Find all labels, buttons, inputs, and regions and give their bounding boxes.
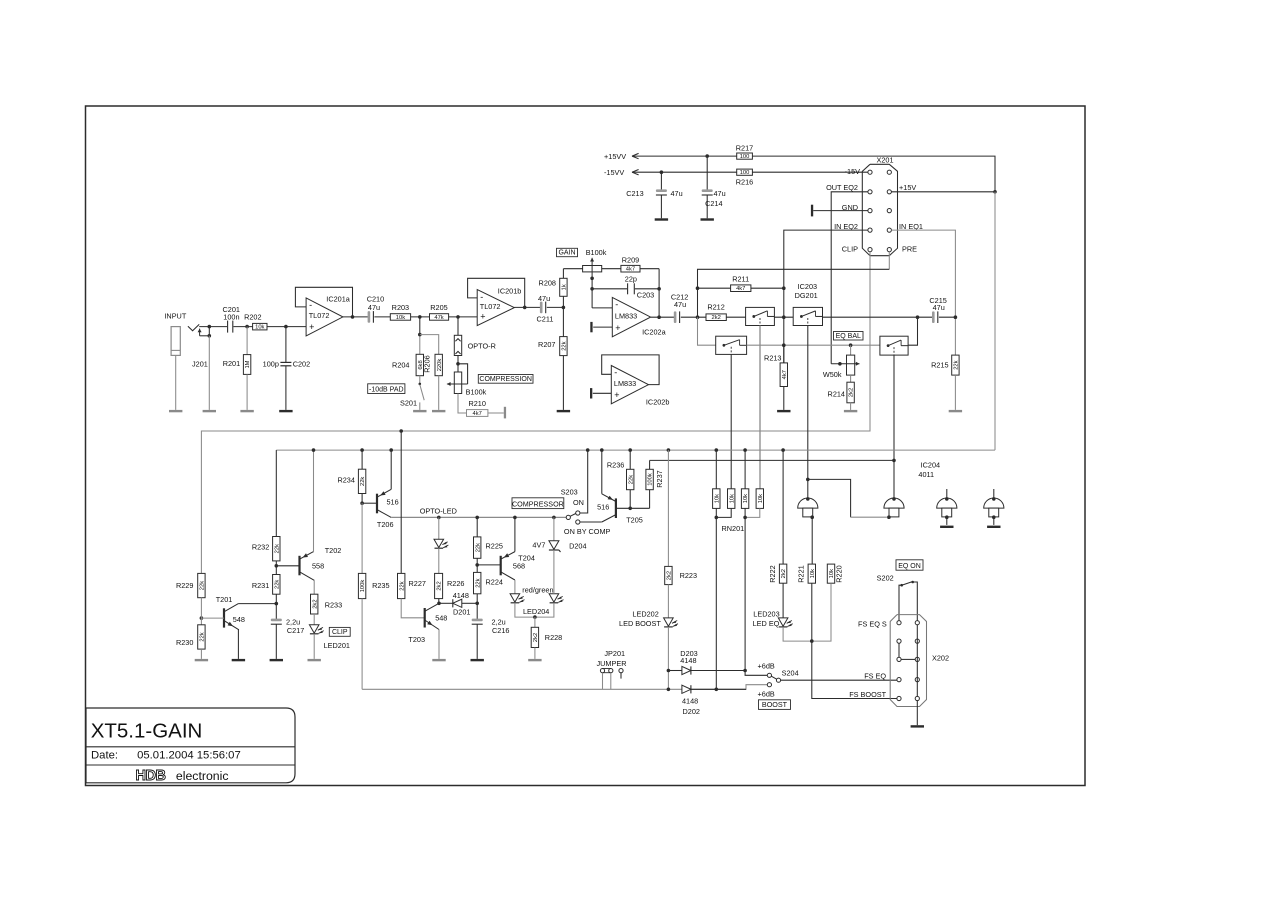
wire R202-opamp: [267, 326, 306, 328]
node R221 bottom j: [810, 639, 814, 643]
label red/green: [522, 586, 553, 595]
node IC202a out: [657, 315, 661, 319]
ground gate C: [940, 526, 953, 528]
ground C216: [471, 659, 484, 661]
pin X201 right row3: [887, 209, 891, 213]
svg-text:10k: 10k: [396, 315, 405, 321]
node T204 base j: [475, 563, 479, 567]
svg-text:R211: R211: [732, 275, 749, 284]
wire wiper loop: [458, 364, 468, 384]
resistor R220: [827, 564, 835, 583]
label C214 value: [714, 189, 726, 198]
svg-text:C202: C202: [293, 360, 310, 369]
pot gain wiper arrow: [590, 258, 594, 279]
resistor R208: [560, 278, 568, 296]
transistor T204: [477, 552, 515, 580]
ground R201: [240, 410, 253, 412]
resistor R226: [435, 573, 443, 598]
node R224 bottom: [475, 602, 479, 606]
logo HDB: [136, 768, 166, 784]
switch S202: [900, 581, 914, 587]
svg-text:4148: 4148: [453, 591, 469, 600]
led LED202: [664, 618, 678, 627]
wire R222-LED203: [782, 583, 784, 618]
wire SW3 control: [893, 355, 895, 499]
resistor R214: [847, 382, 855, 403]
node C203 right: [657, 287, 661, 291]
svg-text:516: 516: [597, 503, 609, 512]
svg-text:22k: 22k: [274, 544, 280, 553]
resistor R237: [646, 460, 654, 508]
wire R204-S201: [419, 376, 421, 384]
switch S204 lever: [771, 676, 777, 679]
wire R233-LED201: [313, 614, 315, 625]
label INPUT: [164, 311, 186, 320]
svg-text:LED EQ: LED EQ: [753, 619, 780, 628]
label T201 value: [233, 615, 245, 624]
svg-text:COMPRESSION: COMPRESSION: [479, 376, 532, 383]
label T203 value: [435, 614, 447, 623]
led LED201: [309, 625, 323, 634]
wire R226-T203: [438, 599, 440, 604]
label X202: [932, 654, 949, 663]
wire eqbal right: [908, 317, 917, 345]
svg-text:22k: 22k: [954, 360, 960, 369]
pin X202 right row4: [915, 678, 919, 682]
wire IC202b feedback: [602, 355, 659, 385]
connector X202 outline: [890, 615, 926, 707]
label T206 value: [387, 498, 399, 507]
svg-text:R229: R229: [176, 581, 193, 590]
svg-text:red/green: red/green: [522, 586, 553, 595]
transistor T202: [276, 552, 314, 581]
terminal R210 bar: [504, 407, 506, 419]
wire T204 emitter: [514, 580, 516, 594]
capacitor C212: [674, 311, 680, 323]
wire bottom rail: [362, 685, 767, 690]
label OPTO-LED: [420, 507, 457, 516]
label S202: [877, 573, 894, 582]
pin X201 right row5: [887, 248, 891, 252]
svg-text:2k2: 2k2: [533, 633, 539, 642]
transistor T203: [425, 603, 439, 629]
resistor R202: [253, 323, 267, 330]
label R236: [607, 460, 624, 469]
pin X201 left row3: [868, 209, 872, 213]
svg-text:516: 516: [387, 498, 399, 507]
label D201 value: [453, 591, 469, 600]
label R211: [732, 275, 749, 284]
node IN EQ2 main: [782, 315, 786, 319]
wire RN34 join: [745, 508, 760, 517]
svg-text:R213: R213: [764, 353, 781, 362]
svg-text:R232: R232: [252, 542, 269, 551]
wire R228 ground: [534, 648, 536, 659]
svg-text:EQ BAL: EQ BAL: [836, 333, 861, 340]
label J201: [192, 359, 208, 368]
switch S204 common: [776, 678, 780, 682]
svg-text:4011: 4011: [918, 470, 934, 479]
wire GND pin: [813, 210, 868, 212]
ground T203: [432, 659, 445, 661]
jack J201 body: [171, 327, 180, 356]
label D201: [453, 608, 470, 617]
node R236 rail: [628, 448, 632, 452]
capacitor C203: [628, 283, 635, 294]
boxed label COMPRESSOR: [512, 498, 564, 509]
node T204 coll rail: [513, 516, 517, 520]
label C217: [287, 626, 304, 635]
node S203 rail: [586, 448, 590, 452]
svg-text:X202: X202: [932, 654, 949, 663]
label C203 value: [625, 275, 637, 284]
node R231-C217: [275, 602, 279, 606]
ground gate D: [987, 526, 1000, 528]
ground R215: [949, 410, 962, 412]
label CLIP: [842, 245, 858, 254]
svg-text:XT5.1-GAIN: XT5.1-GAIN: [91, 719, 203, 742]
node eqbal IN EQ2: [782, 343, 786, 347]
capacitor C214: [702, 156, 713, 218]
resistor R230: [198, 625, 206, 649]
ground R206: [432, 410, 445, 412]
label electronic: [176, 769, 229, 783]
title block box: [86, 708, 295, 783]
node eqbal pot: [849, 343, 853, 347]
nand gate D: [984, 489, 1004, 525]
node gateB out: [892, 497, 896, 501]
svg-text:47u: 47u: [714, 189, 726, 198]
boxed label EQ BAL: [834, 332, 864, 341]
svg-text:Date:: Date:: [91, 749, 118, 761]
svg-text:100k: 100k: [648, 473, 654, 486]
pin X202 left row1: [897, 621, 901, 625]
wire -15VV rail: [632, 171, 868, 173]
capacitor C215: [932, 311, 938, 323]
svg-text:TL072: TL072: [309, 311, 330, 320]
capacitor C216: [472, 603, 483, 659]
label T204: [518, 554, 535, 563]
label IC202a: [642, 328, 666, 337]
node R223 rail: [667, 448, 671, 452]
wire C211-R208: [547, 306, 564, 308]
node SW2-gateA j: [806, 478, 810, 482]
node C203 left: [590, 287, 594, 291]
label IN EQ2: [834, 222, 858, 231]
svg-text:47u: 47u: [674, 300, 686, 309]
wire R207 ground: [562, 356, 564, 410]
label C203: [637, 291, 654, 300]
resistor R221: [808, 564, 816, 583]
resistor R205: [430, 314, 449, 321]
pin X202 left row2: [897, 639, 901, 643]
ground R230: [195, 659, 208, 661]
label PRE: [902, 245, 917, 254]
nand gate A: [798, 498, 818, 517]
wire X202 strap right: [916, 625, 918, 697]
pin X201 left row1: [868, 170, 872, 174]
svg-text:IC202a: IC202a: [642, 328, 666, 337]
switch S203 comp contact: [576, 520, 580, 524]
led LED204 right: [549, 594, 563, 603]
svg-text:4V7: 4V7: [532, 541, 545, 550]
label C216: [492, 626, 509, 635]
resistor R224: [474, 572, 482, 593]
ground R207: [557, 410, 570, 412]
wire C201-R202: [233, 326, 252, 328]
svg-text:R223: R223: [680, 571, 697, 580]
wire IC201a feedback: [295, 287, 352, 317]
svg-text:1k: 1k: [562, 284, 568, 290]
svg-text:548: 548: [435, 614, 447, 623]
pin X202 left row3: [897, 657, 901, 661]
date value: [137, 749, 241, 761]
capacitor C217: [271, 619, 282, 659]
svg-text:D202: D202: [683, 707, 700, 716]
label +15V: [899, 183, 916, 192]
wire gateA in drop: [811, 517, 813, 564]
label R208: [539, 278, 556, 287]
svg-text:R222: R222: [768, 565, 777, 582]
ground LED201: [308, 659, 321, 661]
svg-text:S204: S204: [782, 668, 799, 677]
resistor R231: [273, 575, 281, 595]
resistor R236: [627, 450, 635, 508]
svg-text:R230: R230: [176, 638, 193, 647]
svg-text:10k: 10k: [729, 494, 735, 503]
label R223: [680, 571, 697, 580]
label +15VV: [604, 152, 626, 161]
terminal IC202a plus: [590, 322, 612, 332]
svg-text:558: 558: [312, 562, 324, 571]
svg-text:22k: 22k: [274, 580, 280, 589]
label R210: [468, 399, 485, 408]
op-amp IC202a: [612, 297, 650, 336]
wire gain wiper down: [591, 278, 593, 289]
svg-text:LED201: LED201: [324, 641, 350, 650]
led LED203: [778, 618, 792, 627]
svg-text:LED203: LED203: [753, 609, 779, 618]
wire R237 rail: [650, 459, 894, 461]
wire R222 top: [782, 450, 784, 564]
node pot wiper j: [456, 362, 460, 366]
wire R227-T203base: [401, 599, 425, 618]
svg-text:R233: R233: [325, 600, 342, 609]
svg-text:100n: 100n: [223, 313, 239, 322]
label LED204: [523, 607, 549, 616]
node PRE-R211: [696, 286, 700, 290]
svg-text:ON: ON: [573, 498, 584, 507]
label GND: [842, 203, 858, 212]
label IC201a: [326, 295, 350, 304]
svg-text:S201: S201: [400, 399, 417, 408]
label R226: [447, 579, 464, 588]
svg-text:T201: T201: [216, 595, 233, 604]
label IC202b: [646, 398, 670, 407]
wire T201 emitter: [237, 629, 239, 659]
label LED202: [632, 609, 658, 618]
wire jack switch: [200, 327, 210, 336]
transistor T201: [201, 604, 239, 630]
wire T202 emitter: [313, 580, 315, 594]
wire S202 right: [913, 582, 918, 621]
label R231: [252, 581, 269, 590]
wire R209-out: [640, 269, 659, 318]
svg-text:2k2: 2k2: [437, 581, 443, 590]
terminal IC202b plus: [590, 388, 611, 398]
svg-text:T206: T206: [377, 520, 394, 529]
label +6dB down: [758, 689, 775, 698]
wire SW2-C215: [823, 316, 933, 318]
svg-text:COMPRESSOR: COMPRESSOR: [512, 499, 564, 508]
wire pad drop: [419, 317, 421, 354]
ground R228: [528, 659, 541, 661]
analog switch SW3: [880, 336, 908, 355]
wire JP201 pins: [603, 673, 611, 690]
svg-text:T205: T205: [626, 516, 643, 525]
analog switch SW1: [746, 307, 775, 325]
svg-text:22k: 22k: [562, 341, 568, 350]
pin X202 right row5: [915, 696, 919, 700]
resistor R235: [358, 573, 366, 598]
svg-text:R225: R225: [486, 541, 503, 550]
switch S204 low contact: [767, 683, 771, 687]
svg-text:JUMPER: JUMPER: [597, 659, 627, 668]
node T202 coll rail: [312, 448, 316, 452]
wire T204 collector: [514, 517, 516, 551]
nand gate B: [884, 498, 904, 517]
svg-text:568: 568: [513, 562, 525, 571]
wire T205 collector: [601, 450, 603, 494]
label R237: [655, 470, 664, 487]
terminal GND bar: [811, 205, 813, 217]
wire D204 drop: [553, 517, 555, 541]
label R216: [736, 178, 753, 187]
svg-text:R204: R204: [392, 361, 409, 370]
capacitor C210: [368, 311, 374, 323]
wire IN EQ2 net: [784, 230, 868, 363]
svg-text:IC201a: IC201a: [326, 295, 350, 304]
pin X202 left row5: [897, 696, 901, 700]
led LED204 left: [510, 594, 524, 603]
node D204 top: [552, 516, 556, 520]
wire S203 comp net: [580, 521, 602, 523]
wire R208-R207: [562, 296, 564, 336]
svg-text:IC203: IC203: [798, 282, 817, 291]
wire RN34 drop: [744, 517, 746, 670]
switch S204 up contact: [767, 673, 771, 677]
svg-text:4k7: 4k7: [736, 286, 745, 292]
svg-text:2k2: 2k2: [312, 599, 318, 608]
label C210 value: [368, 303, 380, 312]
node main junction: [696, 315, 700, 319]
ground C217: [270, 659, 283, 661]
node IC201a out: [351, 315, 355, 319]
boxed label EQ ON: [896, 560, 923, 570]
label R206: [423, 355, 432, 372]
label FS BOOST: [849, 690, 886, 699]
label JUMPER: [597, 659, 627, 668]
node CLIP-R227: [399, 429, 403, 433]
label R201: [223, 359, 240, 368]
label C215: [929, 296, 946, 305]
node pad junction: [418, 315, 422, 319]
svg-text:FS BOOST: FS BOOST: [849, 690, 886, 699]
label R227: [409, 579, 426, 588]
pin X202 right row3: [915, 657, 919, 661]
node gateA in: [810, 515, 814, 519]
node RN12 rail: [715, 688, 719, 692]
node C202 top: [284, 325, 288, 329]
svg-text:22k: 22k: [399, 581, 405, 590]
wire led-R226: [438, 548, 440, 573]
wire opto-pot: [457, 356, 459, 373]
ground C202: [279, 410, 292, 412]
wire R211 line: [698, 287, 784, 289]
svg-text:100p: 100p: [263, 360, 279, 369]
resistor R234: [358, 469, 366, 493]
svg-text:B100k: B100k: [586, 248, 607, 257]
label T202 value: [312, 562, 324, 571]
label D203 value: [680, 656, 696, 665]
svg-text:FS EQ S: FS EQ S: [858, 619, 887, 628]
label C215 value: [933, 303, 945, 312]
wire R225-R224: [476, 558, 478, 572]
svg-text:220k: 220k: [437, 359, 443, 372]
label IN EQ1: [899, 222, 923, 231]
wire S202 left: [899, 585, 902, 620]
pin X201 left row2: [868, 190, 872, 194]
label R209: [622, 255, 639, 264]
svg-text:10k: 10k: [758, 494, 764, 503]
label T202: [325, 546, 342, 555]
wire FS EQ: [781, 679, 897, 681]
label LED EQ: [753, 619, 780, 628]
wire SW1 control: [759, 326, 761, 489]
label T204 value: [513, 562, 525, 571]
svg-text:-: -: [309, 300, 312, 310]
pot wiper arrow: [447, 382, 468, 386]
label R232: [252, 542, 269, 551]
label +6dB up: [758, 661, 775, 670]
label R213: [764, 353, 781, 362]
wire R221 bottom: [811, 583, 813, 641]
node gateA out: [806, 497, 810, 501]
label C201: [223, 305, 240, 314]
wire C203 line: [592, 288, 659, 290]
node rail LED202: [667, 688, 671, 692]
svg-text:R206: R206: [423, 355, 432, 372]
resistor R211: [731, 285, 751, 292]
wire R223 top: [667, 450, 669, 566]
resistor R228: [531, 617, 539, 647]
wire R214 ground: [850, 403, 852, 410]
wire D203-S204: [745, 671, 767, 676]
node gain wiper: [590, 277, 594, 281]
svg-text:FS EQ: FS EQ: [864, 672, 886, 681]
svg-text:T202: T202: [325, 546, 342, 555]
label R217: [736, 144, 753, 153]
wire R206 ground: [438, 376, 440, 410]
svg-text:R228: R228: [545, 633, 562, 642]
svg-text:JP201: JP201: [604, 649, 625, 658]
label T201: [216, 595, 233, 604]
svg-text:B100k: B100k: [466, 388, 487, 397]
label LED BOOST: [619, 619, 661, 628]
boxed label COMPRESSION: [478, 375, 533, 384]
svg-text:22k: 22k: [200, 632, 206, 641]
label C211 value: [538, 294, 550, 303]
